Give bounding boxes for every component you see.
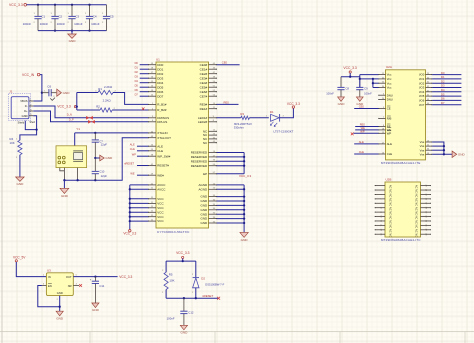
svg-text:GND: GND	[241, 238, 249, 242]
svg-text:2.2KΩ: 2.2KΩ	[104, 85, 113, 89]
svg-text:XTALOUT: XTALOUT	[157, 136, 171, 140]
svg-text:VCC: VCC	[157, 206, 164, 210]
svg-text:WP_SW#: WP_SW#	[157, 154, 170, 158]
svg-text:100nF: 100nF	[167, 316, 175, 320]
svg-text:D3: D3	[441, 84, 445, 88]
svg-text:ALE: ALE	[157, 144, 163, 148]
svg-text:NC: NC	[415, 229, 419, 233]
svg-text:D-: D-	[25, 104, 28, 108]
svg-text:DNU: DNU	[387, 98, 393, 102]
svg-text:C1: C1	[41, 15, 45, 19]
svg-text:NC: NC	[389, 225, 393, 229]
svg-text:GND: GND	[16, 182, 24, 186]
svg-text:GND: GND	[201, 195, 209, 199]
svg-text:CE: CE	[387, 107, 391, 111]
svg-text:GND: GND	[105, 156, 113, 160]
svg-text:C3: C3	[75, 15, 79, 19]
svg-text:U2A: U2A	[386, 65, 392, 69]
svg-text:Y1: Y1	[76, 127, 80, 131]
svg-text:NC: NC	[415, 185, 419, 189]
svg-text:GND: GND	[201, 199, 209, 203]
svg-text:DD6: DD6	[157, 90, 163, 94]
svg-text:ALE: ALE	[387, 142, 392, 146]
svg-text:NC: NC	[389, 229, 393, 233]
svg-text:C10: C10	[99, 169, 105, 173]
svg-text:D1: D1	[270, 110, 274, 114]
svg-text:GND: GND	[69, 39, 77, 43]
svg-text:100nF: 100nF	[91, 22, 100, 26]
svg-text:D_N: D_N	[67, 114, 72, 117]
svg-text:D4: D4	[441, 88, 445, 92]
svg-text:D5: D5	[441, 92, 445, 96]
svg-text:VCC_3.3: VCC_3.3	[343, 66, 357, 70]
svg-text:GND: GND	[201, 212, 209, 216]
svg-text:RESET#: RESET#	[157, 164, 169, 168]
svg-text:VCC_3.3: VCC_3.3	[119, 275, 132, 279]
svg-text:NC: NC	[415, 207, 419, 211]
svg-text:R3: R3	[240, 112, 244, 116]
svg-text:NC: NC	[415, 202, 419, 206]
svg-text:Vcc: Vcc	[387, 86, 392, 90]
svg-text:C8: C8	[345, 87, 349, 91]
svg-text:CE0#: CE0#	[200, 63, 208, 67]
svg-text:XTALIN: XTALIN	[157, 131, 167, 135]
svg-text:NC: NC	[389, 189, 393, 193]
svg-text:MT29F8G08ABACAH4-ITE: MT29F8G08ABACAH4-ITE	[381, 161, 421, 165]
svg-text:IN: IN	[48, 275, 51, 279]
svg-text:CE1#: CE1#	[200, 67, 208, 71]
svg-text:D7: D7	[441, 101, 445, 105]
svg-text:VCC_3.3: VCC_3.3	[123, 231, 136, 235]
svg-text:NC: NC	[389, 207, 393, 211]
svg-text:AGND: AGND	[199, 183, 209, 187]
svg-text:OUT: OUT	[66, 275, 72, 279]
svg-text:WE: WE	[361, 126, 366, 130]
svg-text:CE2#: CE2#	[200, 72, 208, 76]
svg-text:NR: NR	[68, 284, 72, 288]
svg-text:CE7#: CE7#	[200, 94, 208, 98]
svg-text:CE0: CE0	[222, 61, 228, 65]
svg-text:NC: NC	[415, 225, 419, 229]
svg-text:GND: GND	[458, 153, 466, 157]
svg-text:100nF: 100nF	[40, 22, 49, 26]
svg-text:NC: NC	[415, 194, 419, 198]
svg-text:nRESET: nRESET	[202, 294, 213, 298]
svg-text:WP: WP	[387, 131, 392, 135]
svg-text:ALE: ALE	[130, 142, 135, 146]
svg-text:R_B1#: R_B1#	[157, 103, 167, 107]
svg-text:NC: NC	[415, 216, 419, 220]
svg-text:WP: WP	[132, 152, 136, 156]
svg-text:NC: NC	[415, 198, 419, 202]
svg-text:CE6#: CE6#	[200, 90, 208, 94]
svg-text:NC: NC	[389, 211, 393, 215]
svg-text:VCC: VCC	[157, 197, 164, 201]
svg-text:330ohm: 330ohm	[234, 126, 245, 130]
svg-text:GND: GND	[56, 316, 64, 320]
svg-text:12pF: 12pF	[101, 174, 108, 178]
svg-text:U2B: U2B	[386, 178, 392, 182]
svg-text:VCC_3.3: VCC_3.3	[57, 105, 71, 109]
svg-text:GND: GND	[201, 217, 209, 221]
svg-text:10K: 10K	[169, 278, 174, 282]
svg-text:CY7C68013-56LTXC: CY7C68013-56LTXC	[157, 230, 190, 234]
svg-text:EP: EP	[203, 172, 207, 176]
svg-text:VCC_3.3: VCC_3.3	[9, 3, 23, 7]
svg-text:CE4#: CE4#	[200, 81, 208, 85]
svg-text:NC: NC	[415, 220, 419, 224]
svg-text:NC: NC	[389, 194, 393, 198]
svg-text:GND: GND	[201, 221, 209, 225]
svg-text:Shell: Shell	[30, 121, 36, 124]
svg-text:D2: D2	[441, 79, 445, 83]
svg-text:GND: GND	[92, 308, 100, 312]
svg-text:DD4: DD4	[157, 81, 163, 85]
svg-text:GND: GND	[22, 114, 28, 118]
svg-text:NC: NC	[389, 198, 393, 202]
svg-text:10K: 10K	[10, 141, 15, 145]
svg-text:R1: R1	[98, 87, 102, 91]
svg-text:RESERVED: RESERVED	[191, 155, 208, 159]
svg-text:NC: NC	[415, 233, 419, 237]
svg-text:DD5: DD5	[157, 85, 163, 89]
svg-text:RE1#: RE1#	[200, 107, 208, 111]
svg-text:LTST-C190GKT: LTST-C190GKT	[274, 130, 294, 134]
svg-text:C11: C11	[99, 284, 104, 288]
svg-text:NC: NC	[389, 185, 393, 189]
svg-text:NC: NC	[389, 220, 393, 224]
svg-text:ALE: ALE	[359, 140, 364, 144]
svg-text:U1: U1	[156, 58, 160, 62]
svg-text:C5: C5	[110, 15, 114, 19]
svg-text:DD2: DD2	[157, 72, 163, 76]
svg-text:DD1: DD1	[157, 67, 163, 71]
svg-text:VCC_3.3: VCC_3.3	[176, 251, 190, 255]
svg-text:VCC_3.3: VCC_3.3	[287, 102, 300, 106]
svg-text:DD3: DD3	[157, 76, 163, 80]
svg-text:RE0: RE0	[224, 100, 230, 104]
svg-text:NC: NC	[415, 189, 419, 193]
svg-text:VCC: VCC	[157, 202, 164, 206]
svg-text:R_B2#: R_B2#	[157, 108, 167, 112]
svg-text:CLE: CLE	[359, 150, 364, 154]
svg-text:100nF: 100nF	[74, 22, 83, 26]
svg-text:C2: C2	[58, 15, 62, 19]
svg-text:VCC: VCC	[157, 210, 164, 214]
svg-text:CLE: CLE	[157, 149, 163, 153]
svg-text:CE3#: CE3#	[200, 76, 208, 80]
svg-text:J1: J1	[9, 89, 13, 93]
svg-text:WE: WE	[130, 171, 134, 175]
svg-text:RESERVED: RESERVED	[191, 151, 208, 155]
svg-text:C9: C9	[364, 87, 368, 91]
svg-text:NC: NC	[389, 233, 393, 237]
svg-text:100nF: 100nF	[57, 22, 66, 26]
svg-text:U3: U3	[47, 268, 51, 272]
svg-text:VCC: VCC	[157, 219, 164, 223]
svg-text:CE0: CE0	[359, 105, 365, 109]
svg-text:I/O7: I/O7	[419, 103, 425, 107]
svg-text:GND: GND	[338, 102, 346, 106]
svg-text:D2: D2	[201, 276, 205, 280]
svg-text:GND: GND	[201, 204, 209, 208]
svg-text:CLE: CLE	[387, 152, 393, 156]
svg-text:NC: NC	[389, 202, 393, 206]
svg-text:DD0: DD0	[157, 63, 163, 67]
svg-text:R5: R5	[169, 272, 173, 276]
svg-text:CE5#: CE5#	[200, 85, 208, 89]
svg-text:EN: EN	[48, 284, 52, 288]
svg-text:NC: NC	[389, 216, 393, 220]
svg-text:VCC: VCC	[157, 215, 164, 219]
svg-text:nRESET: nRESET	[124, 162, 135, 166]
svg-text:VCC_5V: VCC_5V	[13, 256, 26, 260]
svg-text:100nF: 100nF	[326, 92, 334, 96]
svg-text:C6: C6	[47, 85, 51, 89]
svg-text:AGND: AGND	[199, 187, 209, 191]
svg-text:C4: C4	[93, 15, 97, 19]
svg-text:GND: GND	[61, 194, 69, 198]
svg-text:100nF: 100nF	[23, 22, 32, 26]
svg-text:AVCC: AVCC	[157, 187, 166, 191]
svg-text:RESERVED: RESERVED	[191, 164, 208, 168]
svg-text:DD7: DD7	[157, 94, 163, 98]
svg-text:D1: D1	[441, 75, 445, 79]
svg-text:WE#: WE#	[157, 173, 164, 177]
svg-text:NC: NC	[415, 211, 419, 215]
svg-text:Shield: Shield	[18, 122, 25, 125]
svg-text:GND: GND	[63, 91, 71, 95]
svg-text:D+: D+	[24, 109, 28, 113]
svg-text:D0: D0	[441, 71, 445, 75]
svg-text:D_P: D_P	[69, 118, 74, 121]
svg-text:RE0: RE0	[360, 123, 366, 127]
svg-text:VBUS: VBUS	[20, 99, 28, 103]
svg-text:D6: D6	[441, 97, 445, 101]
svg-text:CLE: CLE	[130, 147, 135, 151]
svg-text:GND: GND	[57, 291, 63, 295]
svg-text:2.2KΩ: 2.2KΩ	[103, 99, 112, 103]
svg-text:VCC_IN: VCC_IN	[22, 73, 35, 77]
svg-text:MT29F8G08ABACAH4-ITC: MT29F8G08ABACAH4-ITC	[381, 238, 421, 242]
svg-text:AVCC: AVCC	[157, 183, 166, 187]
svg-text:GND: GND	[201, 208, 209, 212]
svg-text:WP: WP	[360, 129, 365, 133]
svg-text:DPLUS: DPLUS	[157, 120, 167, 124]
svg-text:100nF: 100nF	[364, 92, 372, 96]
svg-text:VCC_3.3: VCC_3.3	[239, 174, 252, 178]
svg-text:RESERVED: RESERVED	[191, 159, 208, 163]
svg-text:12pF: 12pF	[101, 142, 108, 146]
svg-text:LED2#: LED2#	[198, 120, 208, 124]
svg-text:GND: GND	[180, 331, 188, 335]
svg-text:R/B: R/B	[387, 117, 392, 121]
svg-text:Vss: Vss	[420, 152, 425, 156]
svg-text:DS5100BW-7-F: DS5100BW-7-F	[205, 282, 224, 286]
svg-text:C12: C12	[188, 311, 194, 315]
